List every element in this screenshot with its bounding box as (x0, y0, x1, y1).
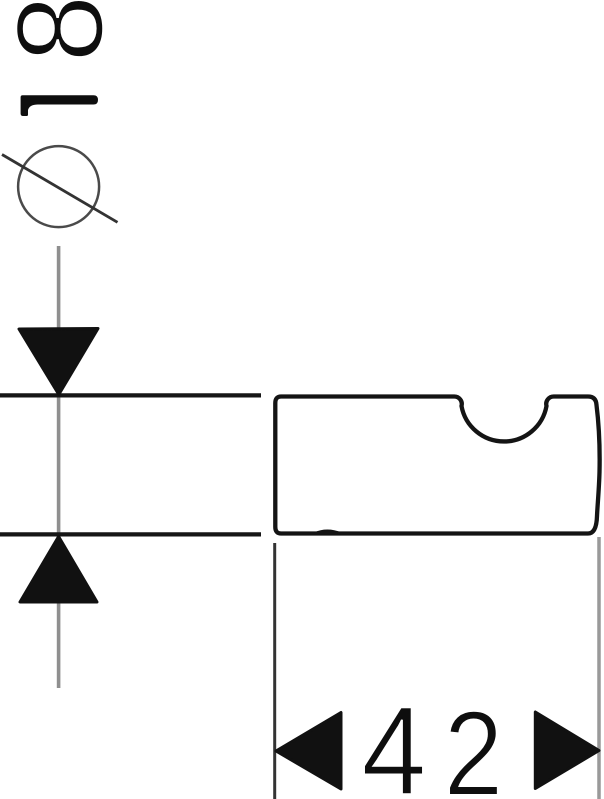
arrowhead pointing up (18 dimension) (20, 537, 97, 603)
extension line right (42 dimension) (597, 537, 601, 799)
arrowhead pointing down (18 dimension) (19, 329, 98, 395)
arrowhead pointing right (42 dimension) (535, 712, 599, 789)
vertical dimension line for 18 (57, 246, 61, 688)
extension line left (42 dimension) (273, 543, 276, 799)
svg-text:4: 4 (361, 680, 426, 799)
extension line bottom (part bottom edge, left side) (0, 532, 261, 536)
diameter symbol circle (18, 146, 99, 227)
diameter symbol slash (2, 155, 118, 223)
dimension text "1" (of vertical Ø18 label, drawn as path) (21, 95, 98, 116)
hook part outline (side view) (275, 396, 599, 533)
arrowhead pointing left (42 dimension) (276, 713, 341, 790)
extension line top (part top edge, left side) (0, 393, 261, 397)
svg-text:8: 8 (0, 0, 129, 63)
small seam bump on bottom edge of part (315, 531, 342, 534)
svg-text:2: 2 (444, 687, 503, 799)
